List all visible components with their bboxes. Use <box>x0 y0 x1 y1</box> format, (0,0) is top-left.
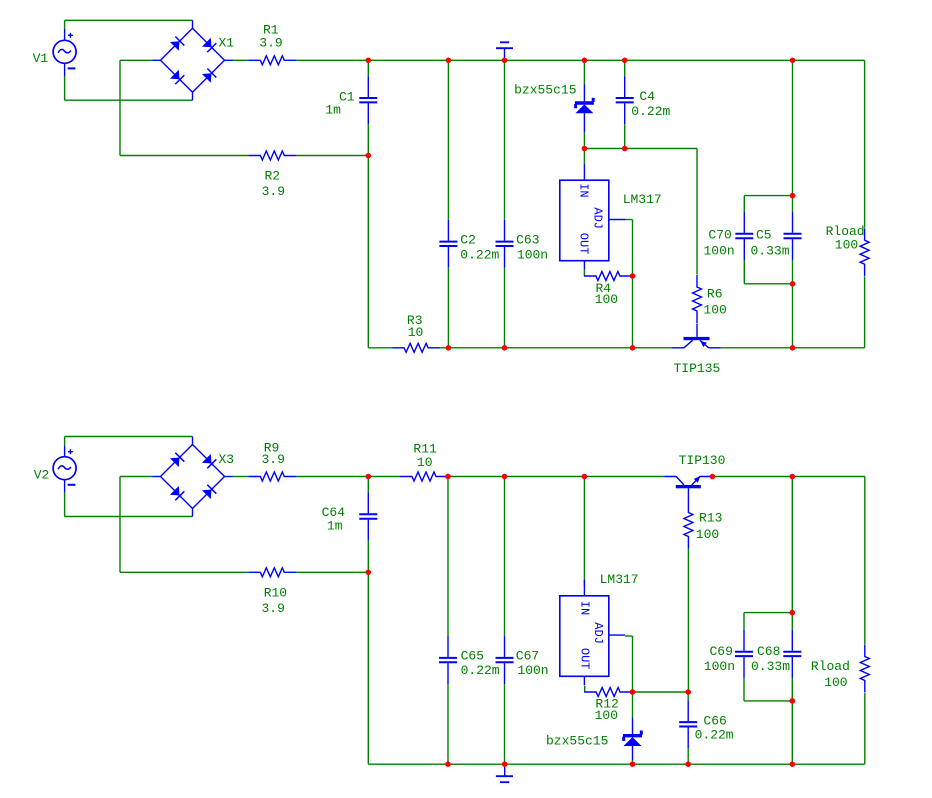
svg-text:100: 100 <box>703 303 726 318</box>
junction <box>622 146 628 152</box>
resistor R3 <box>392 343 440 352</box>
junction <box>446 58 452 64</box>
svg-text:100: 100 <box>595 708 618 723</box>
svg-text:10: 10 <box>417 455 433 470</box>
svg-text:10: 10 <box>408 325 424 340</box>
regulator U1 LM317 <box>560 164 625 270</box>
junction <box>622 58 628 64</box>
junction <box>582 58 588 64</box>
svg-text:V1: V1 <box>33 51 49 66</box>
wire <box>624 60 626 76</box>
svg-text:X1: X1 <box>219 36 235 51</box>
wire <box>864 693 866 764</box>
capacitor C70 <box>735 212 753 260</box>
junction <box>685 689 691 695</box>
svg-text:100: 100 <box>824 675 847 690</box>
svg-text:0.33m: 0.33m <box>751 243 790 258</box>
wire <box>504 684 506 764</box>
capacitor C4 <box>616 76 634 124</box>
wire <box>743 260 745 284</box>
junction <box>630 273 636 279</box>
svg-text:R10: R10 <box>264 586 287 601</box>
resistor R2 <box>248 151 296 160</box>
wire <box>632 692 634 718</box>
svg-text:R13: R13 <box>699 511 722 526</box>
svg-text:OUT: OUT <box>576 233 590 255</box>
svg-text:C70: C70 <box>708 227 731 242</box>
svg-text:100n: 100n <box>517 663 548 678</box>
resistor R10 <box>248 568 296 577</box>
svg-text:ADJ: ADJ <box>591 207 605 229</box>
wire <box>792 60 794 212</box>
svg-text:C65: C65 <box>461 649 484 664</box>
wire <box>743 678 745 701</box>
junction <box>790 610 796 616</box>
wire <box>864 60 866 227</box>
capacitor C68 <box>783 630 801 678</box>
svg-text:0.22m: 0.22m <box>631 104 670 119</box>
svg-text:C66: C66 <box>703 714 726 729</box>
transistor TIP130 <box>664 476 712 500</box>
resistor R11 <box>400 472 448 481</box>
svg-text:ADJ: ADJ <box>591 622 605 644</box>
svg-text:100n: 100n <box>517 248 548 263</box>
svg-text:C67: C67 <box>516 649 539 664</box>
junction <box>790 193 796 199</box>
wire <box>296 476 400 478</box>
wire <box>65 516 193 518</box>
wire <box>624 124 626 148</box>
wire <box>632 636 634 692</box>
svg-text:0.22m: 0.22m <box>695 727 734 742</box>
svg-text:3.9: 3.9 <box>259 36 282 51</box>
wire <box>625 635 633 637</box>
wire <box>687 748 689 764</box>
svg-text:C68: C68 <box>757 644 780 659</box>
svg-text:C4: C4 <box>639 89 655 104</box>
wire <box>367 156 369 348</box>
junction <box>445 474 451 480</box>
wire main top rail <box>296 59 864 61</box>
wire <box>504 477 506 637</box>
junction <box>790 474 796 480</box>
svg-text:bzx55c15: bzx55c15 <box>514 82 576 97</box>
wire <box>120 59 153 61</box>
svg-text:1m: 1m <box>327 519 343 534</box>
capacitor C65 <box>439 636 457 684</box>
wire <box>447 268 449 348</box>
capacitor C1 <box>359 76 377 124</box>
junction <box>366 153 372 159</box>
junction <box>366 58 372 64</box>
wire <box>367 572 369 764</box>
wire <box>744 612 792 614</box>
wire <box>687 692 689 700</box>
ground bottom <box>496 764 513 782</box>
svg-text:V2: V2 <box>34 467 50 482</box>
wire <box>633 691 689 693</box>
svg-text:100n: 100n <box>704 243 735 258</box>
junction <box>502 761 508 767</box>
wire <box>64 76 66 100</box>
junction <box>790 281 796 287</box>
wire bottom rail right <box>721 347 865 349</box>
resistor R9 <box>248 472 296 481</box>
junction <box>366 570 372 576</box>
wire <box>64 492 66 516</box>
wire <box>625 148 697 150</box>
wire <box>583 60 585 85</box>
wire rail to TIP130 <box>448 476 664 478</box>
transistor TIP135 <box>672 324 721 348</box>
svg-text:C63: C63 <box>516 233 539 248</box>
capacitor C66 <box>679 700 697 748</box>
wire <box>296 155 368 157</box>
wire <box>632 276 634 348</box>
wire <box>504 268 506 348</box>
wire <box>233 476 249 478</box>
wire rail after TIP130 <box>712 476 864 478</box>
wire <box>864 477 866 645</box>
svg-text:X3: X3 <box>219 452 235 467</box>
capacitor C64 <box>359 493 377 541</box>
wire <box>447 477 449 637</box>
voltage source V1 <box>53 29 76 76</box>
wire <box>65 99 193 101</box>
svg-text:C5: C5 <box>756 227 772 242</box>
wire <box>744 283 792 285</box>
wire <box>584 686 586 692</box>
junction <box>790 58 796 64</box>
wire <box>65 19 193 21</box>
wire <box>504 60 506 220</box>
svg-text:C69: C69 <box>710 644 733 659</box>
junction <box>366 474 372 480</box>
svg-text:3.9: 3.9 <box>262 601 285 616</box>
svg-text:LM317: LM317 <box>600 572 639 587</box>
svg-text:0.22m: 0.22m <box>461 663 500 678</box>
capacitor C67 <box>496 636 514 684</box>
svg-text:100: 100 <box>595 292 618 307</box>
svg-text:3.9: 3.9 <box>262 452 285 467</box>
junction <box>502 474 508 480</box>
junction <box>502 58 508 64</box>
svg-text:LM317: LM317 <box>623 192 662 207</box>
junction <box>502 345 508 351</box>
resistor Rload top <box>860 228 869 276</box>
wire <box>632 760 634 764</box>
wire <box>367 541 369 573</box>
wire <box>584 148 624 150</box>
wire <box>791 477 793 630</box>
wire <box>744 700 792 702</box>
svg-text:1m: 1m <box>325 102 341 117</box>
wire bottom rail 2 <box>368 763 865 765</box>
wire <box>744 195 792 197</box>
wire <box>625 219 633 221</box>
wire <box>447 60 449 220</box>
wire <box>64 20 66 29</box>
svg-text:C1: C1 <box>339 89 355 104</box>
wire <box>792 260 794 348</box>
junction <box>582 474 588 480</box>
ground top <box>496 42 513 60</box>
capacitor C63 <box>496 220 514 268</box>
wire <box>367 60 369 76</box>
junction <box>685 761 691 767</box>
wire <box>447 684 449 764</box>
junction <box>445 761 451 767</box>
wire <box>583 270 585 276</box>
svg-text:bzx55c15: bzx55c15 <box>546 733 608 748</box>
resistor R6 <box>693 275 702 323</box>
svg-text:100: 100 <box>696 527 719 542</box>
junction <box>630 689 636 695</box>
resistor R1 <box>248 56 296 65</box>
svg-text:TIP130: TIP130 <box>679 453 726 468</box>
wire <box>233 59 249 61</box>
wire <box>120 476 153 478</box>
voltage source V2 <box>53 445 76 492</box>
capacitor C69 <box>735 630 753 678</box>
svg-text:TIP135: TIP135 <box>674 361 721 376</box>
svg-text:0.22m: 0.22m <box>460 248 499 263</box>
regulator U2 LM317 <box>560 580 625 686</box>
zener diode bzx55c15 top <box>575 85 594 133</box>
wire <box>583 477 585 586</box>
svg-text:Rload: Rload <box>811 659 850 674</box>
diode bridge X1 <box>153 20 233 100</box>
wire <box>120 571 248 573</box>
junction <box>790 345 796 351</box>
junction <box>790 761 796 767</box>
wire <box>367 124 369 155</box>
svg-text:OUT: OUT <box>577 648 591 670</box>
svg-text:R2: R2 <box>265 169 281 184</box>
resistor R4 <box>584 272 632 281</box>
svg-text:0.33m: 0.33m <box>751 659 790 674</box>
wire <box>120 155 248 157</box>
junction <box>582 146 588 152</box>
wire <box>791 678 793 764</box>
junction <box>630 345 636 351</box>
svg-text:R6: R6 <box>707 287 723 302</box>
wire <box>64 437 66 446</box>
junction <box>630 761 636 767</box>
diode bridge X3 <box>153 437 233 517</box>
wire <box>583 133 585 164</box>
svg-text:IN: IN <box>577 183 591 197</box>
svg-text:3.9: 3.9 <box>262 184 285 199</box>
wire <box>119 477 121 573</box>
wire <box>65 436 193 438</box>
wire <box>743 196 745 212</box>
wire <box>367 477 369 493</box>
junction <box>790 698 796 704</box>
svg-text:100n: 100n <box>704 659 735 674</box>
resistor Rload bottom <box>860 645 869 693</box>
wire <box>743 613 745 630</box>
svg-text:IN: IN <box>578 601 592 615</box>
zener diode bzx55c15 bottom <box>623 718 642 761</box>
junction <box>710 474 716 480</box>
wire <box>296 571 368 573</box>
wire bottom rail left <box>440 347 672 349</box>
wire <box>632 220 634 277</box>
junction <box>446 345 452 351</box>
svg-text:100: 100 <box>835 238 858 253</box>
wire <box>368 347 392 349</box>
capacitor C5 <box>784 212 802 260</box>
resistor R12 <box>584 688 632 697</box>
wire <box>696 149 698 275</box>
wire <box>687 549 689 693</box>
svg-text:C2: C2 <box>460 233 476 248</box>
wire <box>119 60 121 155</box>
capacitor C2 <box>439 220 457 268</box>
resistor R13 <box>684 501 693 549</box>
wire <box>864 277 866 348</box>
